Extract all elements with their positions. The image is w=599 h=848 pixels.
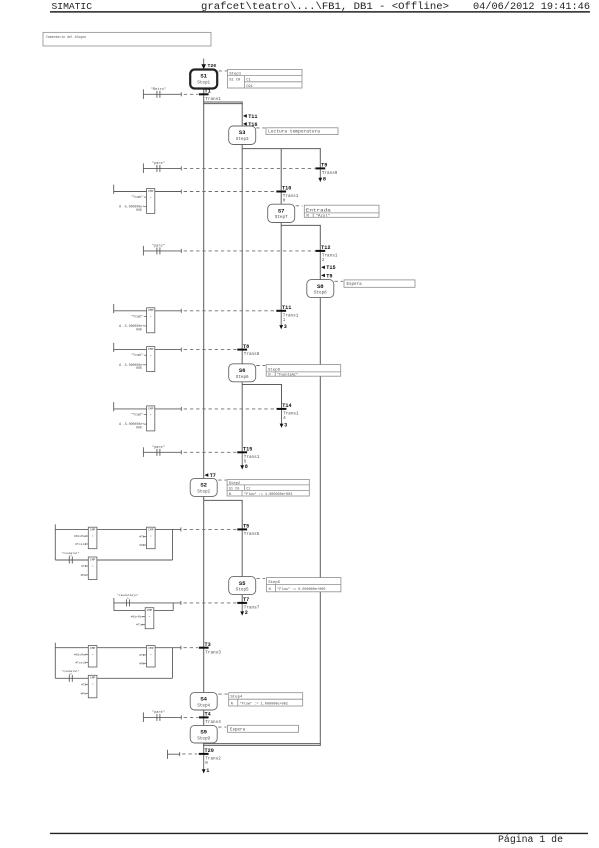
- svg-text:N: N: [268, 374, 270, 378]
- wire branch2 S5..T7: [241, 595, 243, 604]
- svg-text:"pare": "pare": [152, 710, 165, 715]
- wire branch4 S8..merge: [319, 298, 321, 746]
- jump after T20 to step 1: [203, 756, 205, 771]
- condition network of T1: [142, 89, 144, 99]
- svg-text:T15: T15: [326, 265, 335, 271]
- svg-text:"FuenteAz": "FuenteAz": [277, 373, 298, 378]
- svg-text:Entrada: Entrada: [306, 209, 332, 214]
- svg-text:1: 1: [283, 318, 286, 323]
- incoming arrow T16 at S3: [243, 122, 247, 126]
- svg-text:"Azul": "Azul": [316, 214, 330, 219]
- condition network of T10: [113, 185, 115, 194]
- wire main stem S2..S4: [203, 496, 205, 692]
- alternative split below S7: [281, 224, 321, 226]
- transition T12 bar: [315, 250, 325, 252]
- transition T10 bar: [276, 191, 286, 193]
- action table of S4: [229, 693, 303, 707]
- svg-text:"Tcab": "Tcab": [131, 195, 143, 200]
- comment box of S9: [228, 725, 299, 732]
- wire main stem S9..T20: [203, 743, 205, 756]
- dashes S1 to action table: [219, 70, 228, 72]
- svg-text:S5: S5: [239, 580, 246, 587]
- svg-text:T12: T12: [321, 245, 330, 251]
- transition T14 bar: [277, 408, 287, 410]
- wire branch3b S6split..T14: [281, 385, 283, 411]
- condition network of T7: [113, 598, 115, 611]
- svg-text:Step2: Step2: [197, 489, 210, 494]
- dashes S7 to action table: [296, 205, 303, 207]
- dashed condition wire to T9: [184, 167, 315, 169]
- svg-text:S1: S1: [200, 73, 207, 80]
- svg-text:CMP: CMP: [148, 348, 154, 351]
- step S7: [268, 204, 295, 222]
- svg-text:#PL: #PL: [81, 574, 87, 577]
- svg-text:o*: o*: [69, 672, 73, 676]
- svg-text:Trans3: Trans3: [205, 650, 221, 655]
- svg-text:Trans1: Trans1: [205, 97, 221, 102]
- svg-text:Trans9: Trans9: [322, 171, 338, 176]
- wire branch3 S7..T11: [280, 223, 282, 312]
- transition T9 bar: [315, 167, 325, 169]
- condition network of T11: [113, 304, 115, 313]
- condition network of T8: [113, 343, 115, 352]
- comment box of S3: [266, 128, 338, 135]
- jump after T15 to step 8: [241, 454, 243, 468]
- svg-text:"Tcab": "Tcab": [131, 413, 143, 418]
- step S5: [229, 577, 256, 595]
- svg-text:Step3: Step3: [236, 137, 249, 142]
- svg-text:C91: C91: [246, 85, 253, 89]
- dashes S3 to comment: [256, 127, 265, 129]
- svg-text:S6: S6: [239, 367, 246, 374]
- svg-text:000: 000: [136, 366, 142, 370]
- action table of S6: [266, 365, 341, 378]
- condition network of T20: [167, 750, 169, 759]
- svg-text:0: 0: [283, 199, 286, 204]
- svg-text:"Flow" := 1.000000e+003: "Flow" := 1.000000e+003: [244, 492, 292, 497]
- simultaneous split after T1: [203, 101, 243, 103]
- dashed condition wire to T8: [184, 349, 237, 351]
- svg-text:#PL: #PL: [81, 692, 87, 695]
- svg-text:T11: T11: [282, 305, 291, 311]
- transition T1 bar: [199, 93, 209, 95]
- dashes S5 to action table: [256, 577, 265, 579]
- svg-text:N: N: [269, 588, 271, 592]
- svg-text:T20: T20: [205, 748, 214, 754]
- incoming arrow T9 at S8: [321, 274, 325, 278]
- dashed condition wire to T7: [184, 602, 237, 604]
- wire branch2 S2split..S5: [241, 500, 243, 576]
- svg-text:Step7: Step7: [275, 215, 288, 220]
- svg-text:"pare": "pare": [152, 244, 165, 249]
- svg-text:Step1: Step1: [229, 72, 242, 76]
- svg-text:CMP: CMP: [148, 407, 154, 410]
- svg-text:1: 1: [206, 768, 209, 774]
- svg-text:#PL: #PL: [139, 662, 145, 665]
- svg-text:S8: S8: [317, 283, 324, 290]
- svg-text:CMP: CMP: [148, 190, 154, 193]
- dashed condition wire to T11: [184, 310, 276, 312]
- transition T8 bar: [237, 349, 247, 351]
- svg-text:3: 3: [284, 324, 287, 330]
- svg-text:Step2: Step2: [229, 482, 241, 486]
- svg-text:Step6: Step6: [236, 375, 249, 380]
- dashes S2 to action table: [218, 479, 226, 481]
- condition network of T4: [142, 712, 144, 722]
- svg-text:#PL: #PL: [139, 544, 145, 547]
- svg-text:"Flow" := 1.000000e+002: "Flow" := 1.000000e+002: [240, 701, 288, 706]
- svg-text:o*: o*: [69, 554, 73, 558]
- svg-text:Página 1 de: Página 1 de: [498, 834, 563, 846]
- svg-text:Comentario del bloque: Comentario del bloque: [46, 35, 87, 40]
- incoming arrow T11 at S3: [243, 114, 247, 118]
- dashes S4 to action table: [218, 693, 227, 695]
- svg-text:3: 3: [284, 422, 287, 428]
- svg-text:CMP: CMP: [90, 677, 96, 680]
- svg-text:T20: T20: [208, 63, 217, 69]
- svg-text:S1 C0: S1 C0: [229, 487, 240, 491]
- svg-text:Step4: Step4: [197, 703, 210, 708]
- svg-text:#Tcald: #Tcald: [75, 660, 86, 664]
- dashes S8 to comment: [335, 280, 344, 282]
- step S6: [229, 364, 256, 382]
- svg-text:8: 8: [245, 464, 248, 470]
- condition network of T15: [142, 447, 144, 457]
- svg-text:2: 2: [322, 258, 325, 263]
- svg-text:Lectura temperatura: Lectura temperatura: [268, 131, 321, 135]
- svg-text:2: 2: [245, 610, 248, 616]
- svg-text:CMP: CMP: [148, 309, 154, 312]
- transition T7 bar: [237, 602, 247, 604]
- condition network of T14: [113, 402, 115, 411]
- svg-text:T4: T4: [205, 712, 211, 718]
- step S1 (initial): [190, 70, 217, 89]
- svg-text:S7: S7: [278, 207, 285, 214]
- step S4: [190, 692, 217, 710]
- incoming arrow T7 at S2: [205, 473, 209, 477]
- svg-text:#T1: #T1: [139, 536, 145, 539]
- wire main stem S1..S2: [203, 89, 205, 479]
- simultaneous merge above T20: [203, 743, 321, 745]
- svg-text:8: 8: [323, 177, 326, 183]
- svg-text:T8: T8: [243, 344, 249, 350]
- dashes S6 to action table: [256, 365, 265, 367]
- svg-text:Step5: Step5: [236, 588, 249, 593]
- header rule: [50, 11, 590, 13]
- dashed condition wire to T10: [184, 191, 276, 193]
- svg-text:N: N: [231, 702, 233, 706]
- transition T11 bar: [276, 310, 286, 312]
- wire branch2 S6..T15: [241, 382, 243, 454]
- svg-text:S9: S9: [200, 729, 207, 736]
- alternative split below S3: [242, 148, 321, 150]
- dashes S9 to comment: [218, 726, 226, 728]
- svg-text:S4: S4: [200, 696, 207, 703]
- svg-text:"pare": "pare": [152, 161, 165, 166]
- condition network of T9: [142, 163, 144, 173]
- svg-text:CMP: CMP: [147, 609, 153, 612]
- svg-text:CMP: CMP: [90, 647, 96, 650]
- dashed condition wire to T12: [184, 250, 315, 252]
- svg-text:Step5: Step5: [268, 581, 281, 585]
- svg-text:T5: T5: [243, 524, 249, 530]
- wire branch4 S7split..S8: [319, 225, 321, 279]
- svg-text:T14: T14: [282, 403, 291, 409]
- transition T15 bar: [237, 451, 247, 453]
- comment box of S8: [344, 280, 415, 287]
- transition T5 bar: [237, 528, 247, 530]
- condition network of T12: [142, 246, 144, 256]
- jump after T11 to step 3: [280, 312, 282, 327]
- dashed condition wire to T14: [184, 408, 276, 410]
- action table of S7: [304, 205, 379, 219]
- incoming arrow T15 at S8: [321, 266, 325, 270]
- wire main stem S4..S9: [203, 710, 205, 726]
- svg-text:S1 C0: S1 C0: [229, 79, 240, 83]
- svg-text:0: 0: [205, 761, 208, 766]
- condition network of T5: [54, 524, 56, 560]
- wire branch3 split..S7: [280, 149, 282, 205]
- svg-text:#T1: #T1: [81, 683, 87, 686]
- svg-text:Trans4: Trans4: [205, 720, 221, 725]
- svg-text:4: 4: [283, 416, 286, 421]
- svg-text:000: 000: [136, 426, 142, 430]
- svg-text:CMP: CMP: [90, 529, 96, 532]
- svg-text:Step4: Step4: [230, 696, 243, 700]
- block comment box: [43, 32, 211, 46]
- svg-text:Espera: Espera: [347, 283, 363, 287]
- dashed condition wire to T3: [184, 647, 198, 649]
- svg-text:Step6: Step6: [268, 368, 281, 372]
- dashed condition wire to T4: [184, 716, 198, 718]
- footer rule: [50, 832, 588, 834]
- svg-text:T9: T9: [321, 163, 327, 169]
- svg-text:T9: T9: [326, 273, 332, 279]
- jump after T9 to step 8: [319, 170, 321, 180]
- svg-text:"Flow" := 0.000000e+000: "Flow" := 0.000000e+000: [277, 587, 325, 592]
- transition T4 bar: [199, 716, 209, 718]
- condition network of T3: [54, 643, 56, 679]
- wire branch2 top: [241, 102, 243, 126]
- alternative split below S2: [204, 499, 243, 501]
- svg-text:S2: S2: [200, 482, 207, 489]
- svg-text:CMP: CMP: [148, 647, 154, 650]
- svg-text:T1: T1: [205, 89, 211, 95]
- jump after T14 to step 3: [281, 410, 283, 425]
- incoming arrow from T20 into S1: [203, 59, 205, 65]
- svg-text:000: 000: [136, 208, 142, 212]
- step S8: [307, 280, 334, 298]
- svg-text:Step8: Step8: [314, 291, 327, 296]
- svg-text:000: 000: [136, 327, 142, 331]
- svg-text:"Tcab": "Tcab": [131, 353, 143, 358]
- svg-text:T11: T11: [248, 114, 257, 120]
- svg-text:"pare": "pare": [152, 445, 165, 450]
- svg-text:#Tcald: #Tcald: [75, 542, 86, 546]
- transition T3 bar: [199, 647, 209, 649]
- svg-text:T3: T3: [205, 642, 211, 648]
- svg-text:SIMATIC: SIMATIC: [52, 1, 93, 12]
- svg-text:CMP: CMP: [148, 529, 154, 532]
- step S3: [229, 126, 256, 145]
- svg-text:N: N: [229, 493, 231, 497]
- dashed condition wire to T15: [184, 451, 237, 453]
- step S2: [190, 478, 217, 496]
- step S9: [190, 725, 217, 743]
- jump after T7 to step 2: [241, 604, 243, 613]
- dashed condition wire to T1: [184, 93, 198, 95]
- svg-text:Trans5: Trans5: [244, 532, 260, 537]
- svg-text:"Tcab": "Tcab": [131, 314, 143, 319]
- dashed condition wire to T5: [184, 528, 237, 530]
- svg-text:Espera: Espera: [230, 728, 246, 732]
- dashed condition wire to T20: [182, 753, 197, 755]
- svg-text:Step1: Step1: [197, 81, 210, 86]
- svg-text:T7: T7: [243, 597, 249, 603]
- svg-text:C1: C1: [246, 487, 250, 491]
- svg-text:T10: T10: [282, 186, 291, 192]
- svg-text:T15: T15: [243, 447, 252, 453]
- transition T20 bar: [199, 753, 209, 755]
- wire branch2 S3..S6: [241, 145, 243, 364]
- action table of S1: [228, 69, 303, 89]
- alternative split below S6: [242, 384, 282, 386]
- svg-text:#T1: #T1: [139, 654, 145, 657]
- action table of S2: [227, 479, 309, 497]
- svg-text:Step9: Step9: [197, 736, 210, 741]
- svg-text:C1: C1: [246, 79, 251, 83]
- svg-text:#T1: #T1: [81, 565, 87, 568]
- svg-text:S3: S3: [239, 129, 246, 136]
- svg-text:CMP: CMP: [90, 558, 96, 561]
- action table of S5: [266, 578, 341, 592]
- svg-text:Trans8: Trans8: [244, 352, 260, 357]
- wire branch4 split..T9: [319, 149, 321, 170]
- svg-text:"Retro": "Retro": [151, 87, 166, 92]
